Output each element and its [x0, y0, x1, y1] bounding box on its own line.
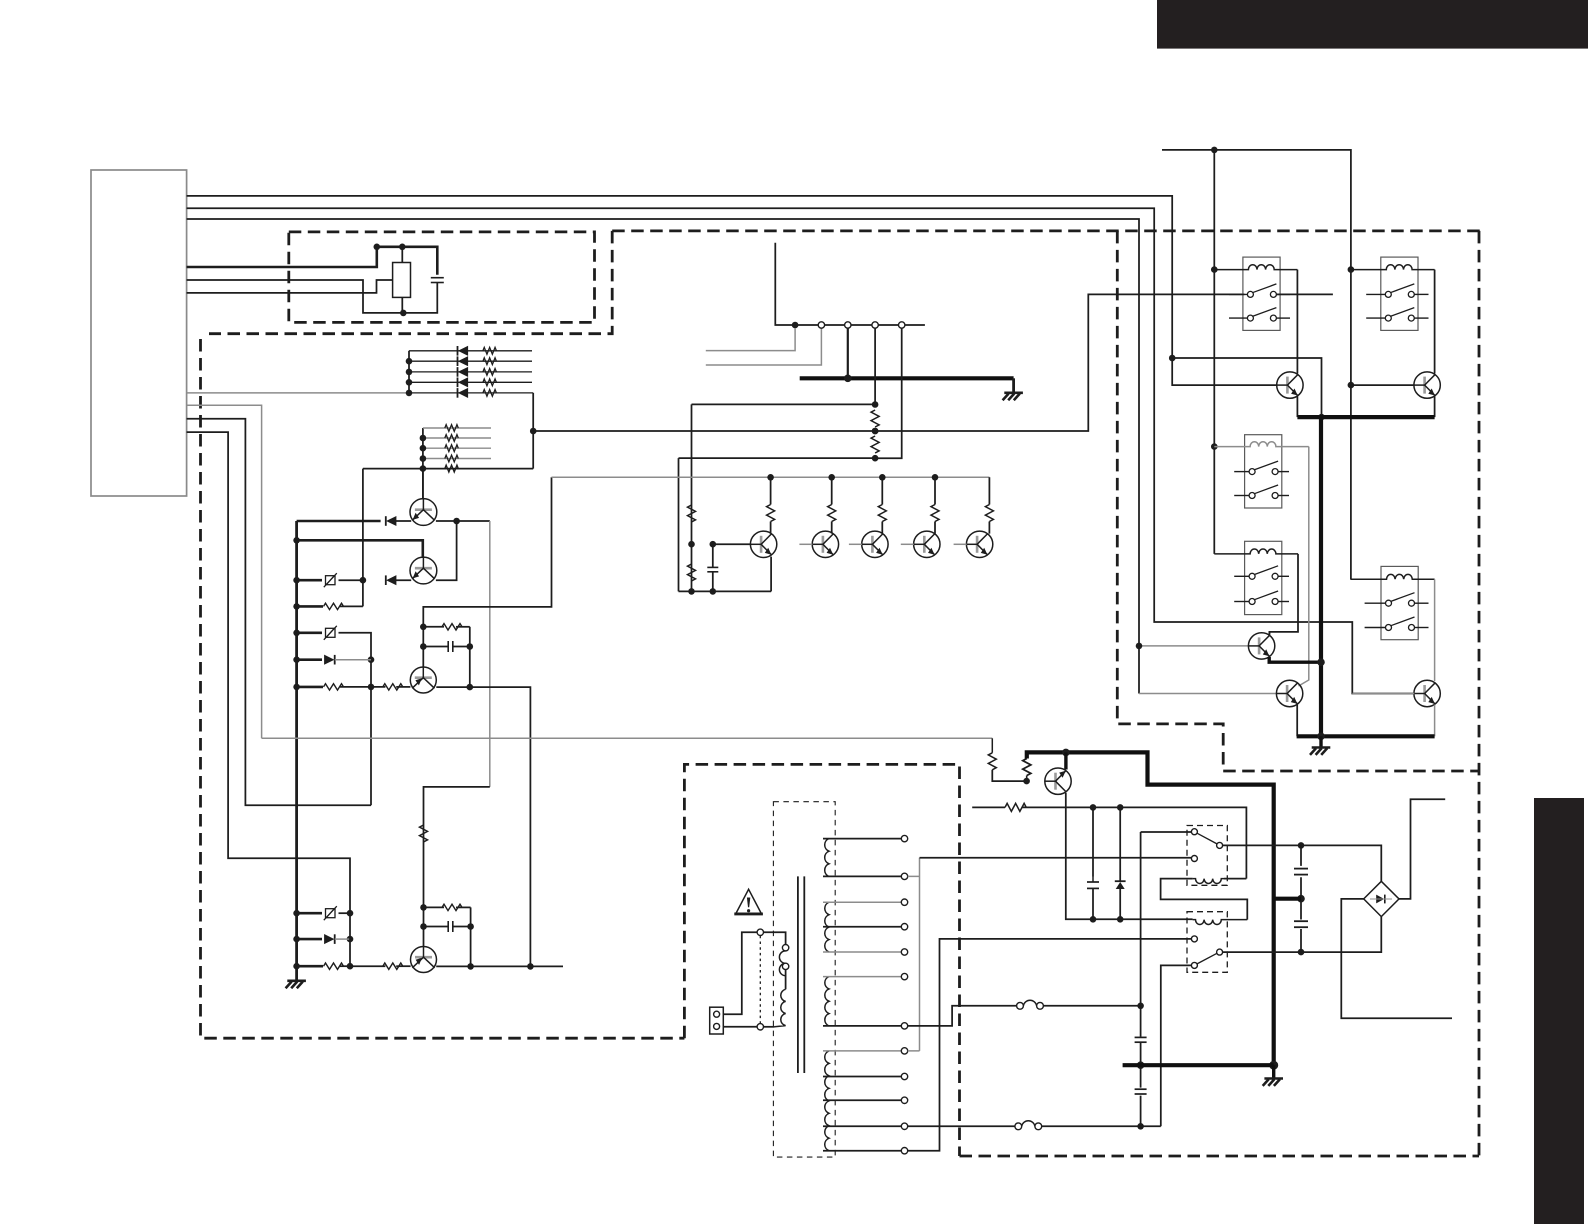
contact K7 b	[1217, 949, 1223, 955]
wire t7 to fuse line	[908, 1006, 1017, 1026]
wire C4 col	[712, 544, 714, 591]
node diode out / long wire	[530, 428, 537, 435]
coil K5	[1350, 574, 1434, 579]
wire gray drop to power section	[489, 521, 491, 787]
capacitor C5 col	[1092, 807, 1094, 919]
wire Q2 emitter row (thick)	[297, 579, 322, 582]
resistor R12	[324, 684, 344, 690]
node gnd rail	[844, 375, 852, 383]
diode D4	[459, 378, 468, 387]
transistor Q-R3	[1248, 633, 1274, 659]
relay K3 box	[1245, 435, 1282, 508]
terminal t2	[901, 873, 907, 879]
node rail T2	[828, 474, 835, 481]
transistor T5	[966, 531, 992, 557]
terminal t9	[901, 1073, 907, 1079]
wire node to R16	[350, 965, 385, 967]
wire row659 (thick)	[297, 658, 322, 661]
capacitor C3	[447, 921, 449, 932]
wire to J1 pin2	[723, 1026, 757, 1028]
resistor R18	[442, 904, 462, 910]
node K1 coil	[1211, 266, 1218, 273]
dashed boundary mid-left edge	[209, 231, 612, 334]
relay K1 contacts	[1229, 293, 1247, 295]
node supply K1	[1211, 147, 1218, 154]
wire Q1 collector out	[436, 520, 490, 522]
transistor T3	[862, 531, 888, 557]
wire T4 collector	[934, 477, 936, 533]
wire U1 pin to bottom rows	[187, 432, 350, 966]
resistor R14	[442, 624, 462, 630]
node QR2 base tap	[1348, 382, 1355, 389]
wire K5 coil to Q-R5	[1434, 579, 1436, 681]
wire U1 pin to R1 bottom	[187, 280, 404, 313]
terminal t6	[901, 973, 907, 979]
wire bias bottom row	[679, 458, 772, 591]
resistor Rg	[445, 445, 459, 452]
node bold gnd big	[1269, 1061, 1278, 1070]
node C2 right	[467, 643, 474, 650]
node header	[792, 322, 799, 329]
wire Q-R4 emitter	[1296, 705, 1298, 737]
wire gray stub1	[706, 328, 795, 351]
wire Q4 R row	[424, 906, 445, 908]
node col350 b	[347, 936, 354, 943]
diode D10 (up)	[1116, 882, 1125, 889]
dashed relay box left edge	[1117, 231, 1479, 771]
wire T3 collector	[881, 477, 883, 533]
node diode bus row2	[406, 358, 413, 365]
wire fuse to node	[1043, 1005, 1140, 1007]
wire F2 to riser371	[339, 633, 372, 806]
capacitor C2	[447, 641, 449, 652]
wire Q-R3 collector	[1268, 632, 1270, 635]
node T1 bias mid	[688, 541, 695, 548]
wire row606 (thick)	[297, 605, 323, 608]
wire D9 to col350	[335, 938, 350, 940]
wire res row5	[363, 468, 533, 470]
terminal t7	[901, 1023, 907, 1029]
node bus	[293, 656, 300, 663]
dashed left box edge	[201, 339, 685, 1038]
wire selector to primary	[764, 932, 786, 944]
selector circle S1d	[757, 1024, 763, 1030]
node bus	[293, 936, 300, 943]
wire res row gray	[423, 447, 491, 449]
transistor Q-R5	[1414, 680, 1440, 706]
wire R1 bottom lead	[401, 297, 403, 313]
node Q1-Q2 tie	[453, 518, 460, 525]
wire row913 (thick)	[297, 912, 322, 915]
secondary W1	[825, 839, 829, 877]
thermal fuse F3	[326, 909, 336, 918]
wire diode row1	[409, 350, 532, 352]
terminal t10	[901, 1097, 907, 1103]
contact K6 c	[1191, 856, 1197, 862]
wire J1 pin1 to selector	[723, 932, 757, 1014]
node K7 out	[1298, 949, 1305, 956]
resistor R5	[483, 379, 497, 386]
relay K2 box	[1381, 257, 1418, 330]
bridge rectifier BR1	[1364, 881, 1399, 916]
node bus	[293, 577, 300, 584]
collector rail	[552, 476, 990, 478]
relay K4 contacts	[1234, 575, 1249, 577]
wire T2 base stub	[799, 543, 812, 545]
transistor Q1	[410, 499, 437, 526]
lever K7	[1197, 953, 1217, 964]
capacitor C7	[1135, 1088, 1147, 1090]
wire K6 coil left jog	[1161, 879, 1248, 920]
wire D8 to riser	[335, 659, 371, 661]
coil K7	[1193, 920, 1248, 925]
wire K4 coil to Q-R3	[1269, 554, 1298, 637]
resistor Rg	[445, 425, 459, 432]
resistor Rg	[445, 435, 459, 442]
node K3 coil	[1211, 443, 1218, 450]
node P-Q1 base	[1023, 778, 1030, 785]
wire T2 collector	[831, 477, 833, 533]
wire sel to coil	[785, 970, 787, 990]
wire supply line y807	[972, 806, 1005, 808]
wire Q-R1 emitter	[1296, 396, 1298, 417]
wire K1 coil to Q-R1	[1296, 270, 1298, 374]
resistor R17	[420, 825, 428, 842]
node cap top	[1090, 804, 1097, 811]
resistor R21	[688, 505, 696, 522]
wire row939 (thick)	[297, 938, 322, 941]
transistor P-Q1	[1045, 768, 1071, 794]
wire T5 collector	[988, 477, 990, 533]
wire diode array output down	[532, 393, 534, 469]
wire R13 to Q3	[396, 686, 410, 688]
wire fuse2 on	[1042, 1125, 1161, 1127]
transistor Q-R2	[1414, 372, 1440, 398]
resistor R1 (box style)	[393, 263, 411, 298]
fuse FU1	[1017, 1002, 1024, 1009]
node bus	[293, 684, 300, 691]
node T1 base node	[710, 541, 717, 548]
wire T4 base stub	[901, 543, 914, 545]
diode D3	[459, 368, 468, 377]
resistor R27	[985, 505, 993, 522]
wire BR1 left out	[1341, 899, 1452, 1018]
wire K7 out	[1223, 917, 1382, 953]
node Q3 rc b	[420, 643, 427, 650]
diode D2	[459, 357, 468, 366]
capacitor C4	[707, 566, 718, 568]
warning triangle	[736, 889, 762, 914]
wire long gray to power	[262, 737, 993, 739]
wire C2 leads	[423, 646, 448, 648]
wire diode row5	[409, 392, 533, 394]
wire K6 contact feed	[1141, 831, 1192, 833]
dashed transformer box	[684, 764, 959, 1156]
contact K6 b	[1217, 842, 1223, 848]
node diode bus row5	[406, 390, 413, 397]
wire R15 to node	[340, 965, 350, 967]
wire Q2 base (thick)	[297, 540, 423, 558]
wire riser x363	[362, 469, 364, 607]
wire res row gray	[423, 458, 491, 460]
selector dotted link	[759, 936, 761, 1024]
node R1 top a	[374, 244, 381, 251]
resistor R30	[1005, 803, 1026, 811]
wire res row gray	[423, 427, 491, 429]
node rail T3	[879, 474, 886, 481]
capacitor C9	[1294, 920, 1308, 922]
resistor R13	[383, 684, 403, 690]
wire K1-K3-K4 feed	[1213, 150, 1215, 554]
wire t12 to K7	[908, 939, 1192, 1151]
secondary W2	[825, 902, 829, 952]
transistor Q-R4	[1276, 680, 1302, 706]
wire t2+t8 common	[908, 858, 920, 1051]
node bus	[293, 963, 300, 970]
ground GND2	[1003, 393, 1023, 400]
terminal t12	[901, 1148, 907, 1154]
node bus	[293, 537, 300, 544]
relay K4 box	[1245, 541, 1282, 614]
terminal t11	[901, 1123, 907, 1129]
selector circle S1b	[782, 945, 788, 951]
pin P2	[845, 322, 851, 328]
node cap col a	[1090, 916, 1097, 923]
terminal t3	[901, 899, 907, 905]
top-right black title bar	[1157, 0, 1588, 49]
wire Q-R5 base	[1352, 693, 1414, 695]
secondary W4	[825, 1051, 829, 1151]
wire R29 top (bold)	[1027, 752, 1274, 1065]
wire diode row3	[409, 371, 532, 373]
wire gray stub2	[706, 328, 822, 365]
resistor R25	[878, 505, 886, 522]
diode D7	[387, 576, 396, 585]
diode D5	[459, 389, 468, 398]
wire R16 to Q4	[396, 965, 410, 967]
wire T1 collector	[770, 477, 772, 533]
transistor Q2	[410, 557, 437, 584]
wire R11 to riser	[340, 605, 363, 607]
resistor Rg	[445, 455, 459, 462]
wire common to K6	[920, 857, 1192, 859]
wire bus3 from U1 to Q-R3/Q-R4 bases	[187, 219, 1139, 694]
coil K3	[1214, 442, 1309, 447]
cap column C8/C9	[1300, 845, 1302, 952]
node Q4 rc a	[420, 904, 427, 911]
node dc out	[1137, 1123, 1144, 1130]
wire Q3 RC right col	[469, 627, 471, 687]
ground GND4	[1263, 1079, 1283, 1086]
relay K3 contacts	[1234, 471, 1249, 473]
wire Q2 collector up	[436, 521, 457, 580]
node Q4 rc b	[420, 923, 427, 930]
wire P3 chain top	[874, 328, 876, 404]
relay K5 box	[1381, 566, 1418, 639]
wire T1 bias column	[691, 404, 693, 591]
wire BR1 right out	[1399, 799, 1445, 899]
transformer core	[797, 876, 799, 1073]
diode D1	[459, 346, 468, 355]
resistor R24	[828, 505, 836, 522]
wire U1 to diode array row5	[187, 392, 409, 394]
wire T1 emitter	[770, 557, 772, 592]
wire Q1 emitter row (thick)	[297, 520, 381, 523]
node Q4 out a	[467, 963, 474, 970]
relay K1 box	[1243, 257, 1280, 330]
terminal t4	[901, 924, 907, 930]
node cap mid	[1297, 895, 1305, 903]
wire R1 top node rail (thick)	[377, 247, 438, 275]
node bus	[293, 603, 300, 610]
wire C3 leads	[424, 926, 449, 928]
contact K6 a	[1191, 829, 1197, 835]
resistor R4	[483, 369, 497, 376]
wire Q3 collector out	[436, 687, 530, 966]
wire row686 (thick)	[297, 686, 323, 689]
wire resistor array bus	[422, 428, 424, 499]
wire T5 base stub	[954, 543, 967, 545]
wire t11 dc line	[908, 1125, 1015, 1127]
wire res row gray	[423, 437, 491, 439]
node gnd2	[1317, 733, 1325, 741]
resistor R6	[483, 390, 497, 397]
selector circle S1a	[757, 929, 763, 935]
node res bus	[420, 455, 427, 462]
terminal t8	[901, 1048, 907, 1054]
node riser371 b	[368, 684, 375, 691]
wire bias top row458	[679, 457, 876, 459]
wire U1 pin to long gray run	[187, 405, 262, 738]
wire K6 col down	[1140, 832, 1142, 1126]
wire Q4 base column	[424, 787, 490, 947]
wire D7 to Q2	[395, 579, 411, 581]
node P3 b	[872, 428, 879, 435]
node res bus	[420, 435, 427, 442]
wire U1 pin jog	[187, 419, 371, 806]
node diode bus row3	[406, 369, 413, 376]
node Q4 out b	[527, 963, 534, 970]
transistor T4	[914, 531, 940, 557]
node P3 a	[872, 401, 879, 408]
primary coil main	[775, 989, 786, 1027]
wire pin header riser	[775, 243, 925, 325]
node R1 bottom	[400, 310, 407, 317]
inner dashed core box	[773, 802, 835, 1157]
contact K7 c	[1191, 962, 1197, 968]
wire T1 base	[713, 543, 751, 545]
resistor R20	[871, 436, 879, 453]
wire R14 end	[456, 626, 470, 628]
wire Q4 collector out	[436, 965, 563, 967]
wire Q-R3 emitter (bold)	[1269, 657, 1321, 662]
bold tie to gnd	[1274, 897, 1301, 901]
ground GND3	[1310, 748, 1330, 755]
wire gnd stub	[1012, 378, 1015, 392]
wire F3 to col350	[339, 912, 351, 914]
ground rail (bold)	[800, 376, 1014, 380]
transistor Q-R1	[1277, 372, 1303, 398]
node bus	[293, 630, 300, 637]
coil K2	[1351, 265, 1435, 270]
bold gnd stub2	[1272, 1065, 1275, 1078]
wire Q-R2 base	[1351, 384, 1414, 386]
wire C1 bottom to node	[403, 283, 437, 313]
lever K6	[1197, 833, 1217, 844]
wire supply top	[1162, 150, 1351, 579]
node C3 right	[467, 923, 474, 930]
node col350 a	[347, 910, 354, 917]
coil K1	[1214, 265, 1297, 270]
wire row632 (thick)	[297, 631, 322, 634]
resistor R15	[324, 963, 344, 969]
wire K3 coil to Q-R4	[1299, 447, 1309, 686]
resistor R11	[324, 603, 344, 609]
relay K2 contacts	[1366, 293, 1385, 295]
wire bus1 from U1 to relay section	[187, 196, 1278, 385]
wire K7 c down	[1161, 965, 1192, 1126]
node res bus row5	[420, 465, 427, 472]
gnd tie bar2 (bold)	[1297, 734, 1435, 738]
thermal fuse F1	[326, 576, 336, 585]
node res bus	[420, 445, 427, 452]
fuse FU2	[1015, 1123, 1022, 1130]
wire R12 to R13	[340, 686, 385, 688]
diode D8	[325, 655, 334, 664]
wire Q1 base	[422, 469, 424, 500]
wire K6 coil right up	[1224, 878, 1246, 880]
wire T1 bias top	[692, 403, 876, 405]
terminal t5	[901, 949, 907, 955]
wire bus1 branch to ground tie	[1172, 358, 1321, 417]
wire T3 base stub	[849, 543, 862, 545]
capacitor C1	[431, 277, 444, 279]
wire Q4 RC right col	[470, 907, 472, 966]
wire Q3 base column	[423, 477, 551, 667]
wire D6 to Q1	[395, 520, 411, 522]
wire long run y431	[533, 294, 1244, 431]
node riser371 a	[368, 656, 375, 663]
wire U1 to R1 top (thick)	[187, 247, 377, 267]
wire F1 to node	[339, 579, 363, 581]
wire main thick bus	[295, 521, 298, 981]
pin P4	[899, 322, 905, 328]
node row966	[347, 963, 354, 970]
primary coil upper	[779, 951, 785, 976]
wire diode row4	[409, 381, 532, 383]
transistor Q3	[410, 667, 436, 693]
node P3 c	[872, 455, 879, 462]
wire R28 to base node	[992, 770, 1026, 781]
bold gnd drop	[1319, 417, 1323, 736]
node T1 cap low	[710, 588, 717, 595]
secondary W3	[825, 977, 829, 1026]
resistor R3	[483, 358, 497, 365]
node rail T1	[767, 474, 774, 481]
node K2 coil	[1348, 266, 1355, 273]
node rail T4	[932, 474, 939, 481]
wire P2 to gnd rail	[847, 328, 849, 378]
wire Q-R3 base tap	[1139, 645, 1249, 647]
wire primary bottom	[764, 1026, 775, 1028]
wire Q3 R row	[423, 626, 444, 628]
node Q3 out	[467, 684, 474, 691]
node Q3 rc a	[420, 624, 427, 631]
wire K2 coil to Q-R2	[1434, 270, 1436, 374]
node fuse line	[1137, 1003, 1144, 1010]
ground GND1	[286, 981, 306, 988]
diode D6	[387, 517, 396, 526]
